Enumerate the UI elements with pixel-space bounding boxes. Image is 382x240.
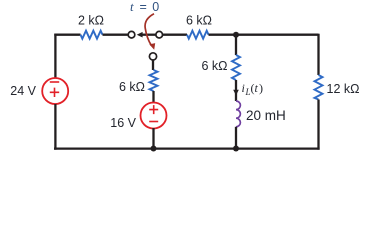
wire top junction down to R4 <box>235 35 237 55</box>
resistor R2 6 kOhm top <box>187 31 209 39</box>
wire switch lower contact down <box>152 60 154 70</box>
wire R3 to 16V source <box>152 91 154 103</box>
node junction bottom middle <box>151 146 157 152</box>
resistor R5 12 kOhm <box>315 75 323 100</box>
svg-text:6 kΩ: 6 kΩ <box>186 14 212 28</box>
inductor L1 20 mH <box>236 101 240 127</box>
switch lower contact circle <box>149 53 156 60</box>
svg-text:24 V: 24 V <box>10 84 36 98</box>
right wire lower <box>317 100 319 150</box>
wire R2 to top-right corner <box>209 34 319 36</box>
wire switch right to R2 <box>163 34 188 36</box>
svg-text:i: i <box>242 81 245 95</box>
wire inductor to bottom junction <box>235 127 237 149</box>
svg-text:t: t <box>130 0 134 14</box>
svg-text:): ) <box>259 81 263 95</box>
voltage source 24 V <box>42 78 68 104</box>
wire top-left segment <box>54 34 80 36</box>
left wire lower <box>54 104 56 150</box>
wire R4 to inductor with current arrow <box>235 80 237 101</box>
switch arm with arrowhead <box>142 34 156 36</box>
switch right contact circle <box>156 31 163 38</box>
switch motion red arc <box>145 14 154 46</box>
wire resistor to switch left contact <box>103 34 128 36</box>
svg-text:12 kΩ: 12 kΩ <box>327 82 360 96</box>
right wire upper <box>317 34 319 75</box>
resistor R3 6 kOhm middle <box>150 70 158 91</box>
switch left contact circle <box>128 31 135 38</box>
svg-text:6 kΩ: 6 kΩ <box>119 80 145 94</box>
left wire upper <box>54 34 56 79</box>
svg-text:16 V: 16 V <box>110 116 136 130</box>
wire 16V to bottom <box>152 128 154 149</box>
current arrow iL(t) <box>233 90 239 96</box>
svg-text:6 kΩ: 6 kΩ <box>201 59 227 73</box>
resistor R4 6 kOhm inductor branch <box>232 55 240 80</box>
voltage source 16 V <box>141 103 167 129</box>
resistor R1 2 kOhm <box>81 31 103 39</box>
node junction bottom inductor <box>233 146 239 152</box>
svg-text:20 mH: 20 mH <box>246 108 286 123</box>
svg-text:2 kΩ: 2 kΩ <box>78 14 104 28</box>
svg-text:t: t <box>255 81 259 95</box>
node junction top <box>233 32 239 38</box>
svg-text:0: 0 <box>152 0 159 14</box>
svg-text:=: = <box>140 0 147 14</box>
bottom wire <box>54 147 320 149</box>
